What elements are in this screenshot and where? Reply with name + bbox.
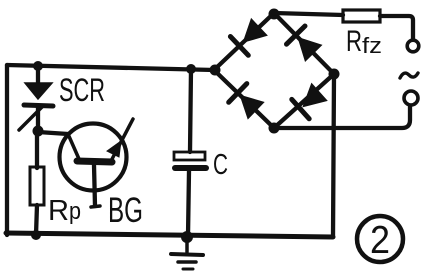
resistor Rfz body	[343, 10, 380, 22]
wire left vertical rail	[5, 65, 9, 235]
diode D4 cathode bar	[292, 99, 309, 118]
label BG	[108, 191, 143, 230]
SCR gate lead	[19, 106, 43, 130]
node junction bottom rail / capacitor / ground	[181, 231, 193, 243]
svg-text:C: C	[213, 149, 228, 181]
transistor base lead inside	[68, 134, 79, 159]
capacitor C top plate	[174, 152, 205, 160]
node junction bottom rail / Rp	[31, 230, 41, 240]
SCR cathode bar	[24, 105, 53, 106]
terminal AC 1 circle	[407, 40, 419, 52]
node bridge top vertex	[269, 9, 280, 20]
transistor Q1 circle	[60, 124, 127, 191]
wire capacitor top lead	[190, 69, 191, 152]
wire SCR anode stub	[36, 66, 40, 85]
ground bar 1	[171, 254, 203, 255]
transistor collector line with arrow	[111, 119, 133, 161]
AC tilde symbol	[400, 73, 418, 78]
diode D3 triangle	[241, 96, 264, 119]
transistor emitter lead	[94, 165, 95, 206]
wire node to transistor base	[38, 132, 68, 134]
svg-text:BG: BG	[108, 191, 143, 230]
wire bridge right vertex to bottom rail	[333, 75, 334, 237]
terminal AC 2 circle	[404, 91, 418, 105]
label Rp	[48, 195, 81, 227]
transistor arrowhead	[107, 141, 121, 157]
svg-text:R: R	[346, 25, 362, 58]
resistor Rp body	[30, 167, 44, 205]
node bridge right vertex	[329, 69, 340, 80]
label Rfz	[346, 25, 382, 58]
transistor emitter end tick	[91, 206, 100, 207]
label SCR	[59, 72, 105, 108]
node junction top rail / SCR anode	[33, 61, 43, 71]
node bridge bottom vertex	[269, 123, 280, 134]
wire Rp to bottom rail	[36, 205, 37, 235]
bridge edge bottom-right	[274, 74, 334, 128]
ground bar 2	[178, 260, 196, 264]
diode D2 cathode bar	[287, 26, 306, 44]
wire capacitor bottom lead	[188, 171, 189, 236]
wire SCR cathode to node	[36, 106, 40, 131]
diode D1 triangle	[244, 19, 267, 42]
wire top rail	[7, 65, 214, 70]
svg-text:R: R	[48, 195, 69, 227]
node SCR cathode / Rp / base	[33, 126, 44, 137]
svg-text:2: 2	[370, 219, 390, 262]
diode D1 cathode bar	[230, 37, 248, 56]
wire Rfz to corner	[380, 16, 413, 39]
bridge edge left-bottom	[214, 70, 274, 128]
svg-text:fz: fz	[362, 33, 382, 58]
label C	[213, 149, 228, 181]
wire node to Rp	[35, 131, 39, 168]
svg-text:SCR: SCR	[59, 72, 105, 108]
node junction top rail / capacitor	[186, 64, 196, 74]
wire bridge bottom vertex to AC terminal 2	[274, 106, 410, 128]
transistor base bar	[77, 161, 112, 162]
diode D4 triangle	[304, 84, 327, 106]
wire bottom rail	[6, 233, 333, 237]
figure number circle 2	[357, 216, 403, 262]
diode D3 cathode bar	[229, 84, 247, 103]
diode D2 triangle	[299, 38, 322, 61]
bridge edge top-right	[274, 13, 334, 74]
bridge edge left-top	[214, 13, 274, 70]
ground stem	[185, 237, 189, 252]
svg-text:p: p	[69, 198, 81, 225]
ground bar 3	[183, 268, 193, 271]
node bridge left vertex	[210, 65, 221, 76]
SCR thyristor triangle	[25, 83, 52, 99]
wire bridge top vertex to Rfz	[274, 13, 343, 15]
capacitor C bottom plate	[175, 165, 206, 171]
